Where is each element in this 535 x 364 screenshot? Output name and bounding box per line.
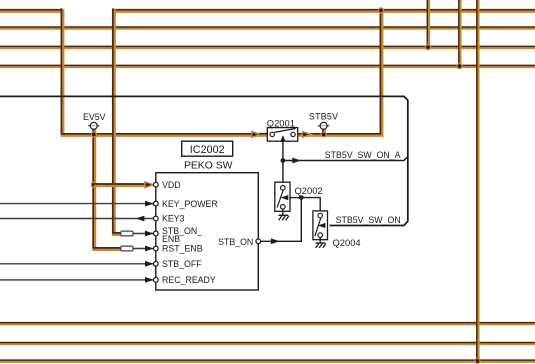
wire VDD feed — [94, 184, 147, 185]
pin KEY3 — [153, 216, 158, 221]
wire EV5V rail down to EV5V node — [61, 8, 261, 134]
wire KEY3 output — [0, 218, 154, 220]
wire STB_OFF input — [0, 263, 154, 265]
wire black net to bus — [0, 96, 408, 225]
pin STB_ON_ENB — [153, 231, 158, 236]
wire drop to rail 4 — [459, 0, 460, 66]
arrow into STB_OFF pin — [145, 261, 154, 267]
wire bottom rail 2 — [0, 343, 535, 344]
ground Q2004 — [316, 243, 326, 248]
IC IC2002 body — [156, 173, 258, 290]
terminal STB5V — [318, 122, 329, 129]
arrow into VDD pin — [145, 182, 154, 188]
junction rail4 x459 — [457, 64, 462, 69]
wire Q2001 base to STB5V_SW_ON_A node — [282, 138, 284, 183]
wire arrow to Q2001 — [259, 134, 268, 135]
svg-text:PEKO SW: PEKO SW — [184, 161, 233, 172]
wire KEY_POWER input — [0, 203, 154, 205]
wire EV5V down to RST_ENB resistor — [93, 134, 123, 249]
junction STB5V rail x381 — [379, 8, 384, 13]
arrow into STB_ON_ENB pin — [145, 231, 154, 237]
junction EV5V node — [91, 132, 96, 137]
wire power rail 3 — [0, 46, 535, 47]
transistor Q2004 — [313, 211, 328, 243]
arrow into RST_ENB pin — [145, 246, 154, 252]
arrow into Q2001 emitter — [252, 132, 261, 138]
svg-text:IC2002: IC2002 — [190, 144, 225, 156]
wire resistor to RST_ENB pin — [133, 248, 153, 250]
pin STB_OFF — [153, 261, 158, 266]
arrow Q2001 output — [302, 132, 311, 138]
terminal EV5V — [88, 122, 99, 129]
arrow into KEY_POWER pin — [145, 201, 154, 207]
wire power rail 4 — [0, 65, 535, 66]
pin STB_ON — [256, 239, 261, 244]
wire power rail 2 — [0, 27, 535, 28]
wire STB_ON from IC to Q2002/Q2004 — [261, 198, 302, 242]
svg-text:STB_OFF: STB_OFF — [162, 259, 202, 269]
pin RST_ENB — [153, 246, 158, 251]
pin VDD — [153, 182, 158, 187]
svg-text:Q2001: Q2001 — [267, 118, 295, 129]
svg-text:STB_ON: STB_ON — [218, 237, 253, 247]
svg-text:ENB: ENB — [162, 234, 180, 244]
wire long drop to bottom rail — [477, 0, 478, 361]
junction STB5V node — [321, 132, 326, 137]
wire EV5V rail top-left segment — [0, 10, 63, 11]
wire STB5V terminal stub — [323, 129, 324, 135]
junction STB_ON node — [299, 195, 304, 200]
svg-text:RST_ENB: RST_ENB — [162, 244, 203, 254]
wire REC_READY input — [0, 279, 154, 281]
resistor to STB_ON_ENB — [121, 231, 133, 236]
wire bottom rail 1 — [0, 323, 535, 324]
svg-text:KEY3: KEY3 — [162, 214, 185, 224]
arrow STB_ON — [271, 238, 280, 244]
svg-text:REC_READY: REC_READY — [162, 275, 216, 285]
wire STB5V rail top-right segment — [112, 10, 535, 11]
wire resistor to STB_ON_ENB pin — [133, 233, 153, 235]
ground Q2002 — [279, 215, 289, 220]
arrow STB5V_SW_ON_A — [292, 158, 301, 164]
svg-text:STB5V_SW_ON: STB5V_SW_ON — [336, 215, 401, 225]
transistor Q2001 — [267, 128, 297, 142]
svg-text:STB5V: STB5V — [309, 111, 338, 121]
junction VDD tap — [91, 182, 96, 187]
wire STB5V rail down to STB_ON_ENB resistor — [113, 8, 123, 234]
svg-text:KEY_POWER: KEY_POWER — [162, 199, 218, 209]
arrow into REC_READY pin — [145, 277, 154, 283]
IC2002 reference box — [182, 141, 233, 156]
wire STB_ON to Q2002 base — [289, 197, 302, 199]
svg-text:STB5V_SW_ON_A: STB5V_SW_ON_A — [325, 150, 401, 160]
wire drop to rail 3 — [427, 0, 428, 47]
junction STB5V_SW_ON_A node — [281, 158, 286, 163]
wire EV5V terminal stub — [93, 129, 94, 135]
wire STB_ON to Q2004 collector — [301, 198, 320, 212]
resistor to RST_ENB — [121, 246, 133, 251]
pin REC_READY — [153, 278, 158, 283]
svg-text:VDD: VDD — [162, 180, 181, 190]
junction bottom rail x477 — [475, 358, 480, 363]
wire bottom rail 3 — [0, 360, 535, 361]
svg-text:EV5V: EV5V — [83, 112, 106, 122]
junction rail3 x428 — [426, 45, 431, 50]
arrow out KEY3 — [136, 216, 145, 222]
wire Q2001 collector to STB5V rail — [297, 8, 382, 134]
svg-text:Q2002: Q2002 — [295, 185, 323, 196]
pin KEY_POWER — [153, 201, 158, 206]
svg-text:Q2004: Q2004 — [333, 237, 361, 248]
wire STB5V_SW_ON_A to bus — [283, 157, 408, 161]
transistor Q2002 — [275, 182, 290, 215]
